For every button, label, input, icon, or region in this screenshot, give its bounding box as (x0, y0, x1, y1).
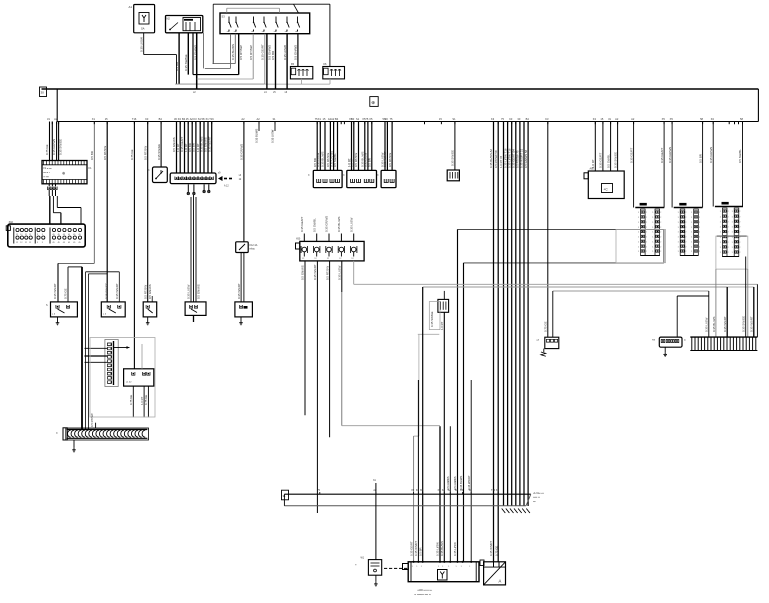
wire from top frame to K6 (329, 4, 331, 66)
svg-text:1: 1 (678, 241, 679, 243)
svg-text:T16: T16 (132, 117, 137, 121)
svg-text:K3: K3 (593, 117, 597, 121)
svg-text:1: 1 (678, 227, 679, 229)
svg-text:1: 1 (732, 221, 733, 223)
svg-text:1: 1 (652, 217, 653, 219)
svg-text:0.5 RT/SW: 0.5 RT/SW (388, 153, 392, 167)
wire collector loops right of center (458, 228, 664, 230)
svg-text:1: 1 (732, 247, 733, 249)
svg-text:0.5 SW/BL: 0.5 SW/BL (738, 149, 742, 163)
svg-text:0.5 GN/WS 58: 0.5 GN/WS 58 (524, 150, 528, 168)
svg-text:1: 1 (652, 251, 653, 253)
svg-text:2: 2 (728, 232, 729, 234)
svg-text:0.35 GE/RT: 0.35 GE/RT (629, 148, 633, 163)
svg-text:1: 1 (720, 221, 721, 223)
svg-text:0.5 GN/WS: 0.5 GN/WS (301, 265, 305, 280)
svg-text:B4: B4 (526, 117, 530, 121)
svg-text:2: 2 (699, 222, 700, 224)
svg-text:2: 2 (739, 221, 740, 223)
svg-text:2: 2 (739, 227, 740, 229)
svg-text:2: 2 (728, 216, 729, 218)
wire long center drops (457, 229, 459, 561)
svg-text:0.75 GE: 0.75 GE (544, 321, 548, 332)
svg-text:T16: T16 (209, 117, 214, 121)
svg-text:0.5 GN/WS: 0.5 GN/WS (294, 45, 298, 60)
svg-text:2: 2 (739, 242, 740, 244)
svg-text:1: 1 (720, 232, 721, 234)
svg-text:1: 1 (461, 566, 462, 568)
wire: main power bus rail 30 (42, 88, 759, 90)
svg-text:1: 1 (469, 566, 470, 568)
svg-text:0.35 GE/RT: 0.35 GE/RT (660, 148, 664, 163)
svg-text:2: 2 (728, 237, 729, 239)
svg-text:1: 1 (732, 242, 733, 244)
svg-text:1: 1 (638, 222, 639, 224)
svg-text:1: 1 (732, 211, 733, 213)
svg-text:2: 2 (699, 246, 700, 248)
svg-text:1: 1 (652, 227, 653, 229)
svg-text:2: 2 (646, 237, 647, 239)
svg-text:0.35 GE/RT: 0.35 GE/RT (409, 541, 413, 556)
svg-text:12: 12 (25, 242, 27, 244)
svg-text:0.35 LI/SW: 0.35 LI/SW (349, 217, 353, 232)
svg-text:B4: B4 (335, 117, 339, 121)
wires below S3 (234, 34, 236, 64)
svg-text:1: 1 (678, 246, 679, 248)
wire bus drop x147 to S22 (147, 122, 149, 302)
wires below X60 (304, 261, 306, 415)
svg-text:0.5 BR: 0.5 BR (418, 547, 422, 556)
svg-text:1: 1 (691, 251, 692, 253)
svg-text:0.75 GE: 0.75 GE (130, 149, 134, 160)
svg-text:2: 2 (685, 251, 686, 253)
svg-text:▪▪▪ ▪▪ ▪: ▪▪▪ ▪▪ ▪ (44, 172, 50, 174)
svg-text:0.35 GR/WS: 0.35 GR/WS (240, 144, 244, 160)
svg-text:1: 1 (678, 212, 679, 214)
wire from A1 (143, 33, 145, 55)
svg-text:2: 2 (660, 232, 661, 234)
component S3 fuse/switch box top (220, 13, 310, 34)
component X70 connector small (545, 337, 559, 348)
svg-text:0.5 RT/SW: 0.5 RT/SW (103, 146, 107, 160)
svg-text:▪A 31▪▪ ▪▪▪: ▪A 31▪▪ ▪▪▪ (533, 492, 544, 495)
svg-text:A2: A2 (631, 117, 635, 121)
svg-text:2: 2 (699, 241, 700, 243)
svg-text:2: 2 (728, 247, 729, 249)
svg-text:A2: A2 (615, 117, 619, 121)
svg-text:0.35 BL/WS: 0.35 BL/WS (712, 317, 716, 332)
svg-text:1: 1 (678, 217, 679, 219)
svg-text:0.35 WS/RT: 0.35 WS/RT (207, 136, 211, 152)
wire long cluster bus to bottom (9 wires) (493, 122, 495, 562)
svg-text:0.5 SW/BL: 0.5 SW/BL (606, 154, 610, 168)
component K6 relay top-right 2 (323, 67, 345, 79)
svg-text:A2: A2 (241, 117, 245, 121)
svg-text:0.35 BL/WS: 0.35 BL/WS (459, 475, 463, 490)
component X65 small box center (447, 170, 459, 181)
svg-text:45: 45 (63, 242, 65, 244)
svg-text:0.35 GR/WS: 0.35 GR/WS (709, 147, 713, 163)
harness outlines gray right (616, 230, 666, 263)
svg-text:45: 45 (73, 242, 75, 244)
svg-text:0.35 LI/SW: 0.35 LI/SW (316, 152, 320, 167)
svg-text:1: 1 (720, 227, 721, 229)
component X85 small connector right (659, 337, 682, 347)
svg-text:0.5 SW/BL: 0.5 SW/BL (333, 153, 337, 167)
wire bus drop x134 to A30 (133, 122, 135, 369)
wires bus to F1 (49, 122, 51, 161)
svg-text:0.5 RT/SW: 0.5 RT/SW (249, 45, 253, 60)
svg-text:0.35 SW/GE: 0.35 SW/GE (451, 150, 455, 166)
component A80 module HC (588, 171, 624, 199)
svg-text:1: 1 (638, 212, 639, 214)
svg-text:1: 1 (691, 212, 692, 214)
svg-text:2: 2 (728, 242, 729, 244)
svg-text:2: 2 (646, 232, 647, 234)
svg-text:0.35 BL/WS: 0.35 BL/WS (337, 217, 341, 232)
routing gray center paths (342, 425, 440, 427)
svg-text:0.35 LI/SW: 0.35 LI/SW (453, 542, 457, 556)
svg-text:1: 1 (638, 232, 639, 234)
svg-text:2: 2 (728, 252, 729, 254)
svg-text:K3: K3 (491, 117, 495, 121)
svg-text:0.35 SW/GE: 0.35 SW/GE (59, 139, 63, 155)
svg-text:1: 1 (691, 227, 692, 229)
wires below X35 with ring terminals (187, 184, 189, 192)
component A90 bottom control module (408, 562, 479, 582)
svg-text:2: 2 (646, 212, 647, 214)
svg-text:A 12: A 12 (224, 185, 229, 188)
wire bottom rail 1 (284, 493, 530, 495)
svg-text:2: 2 (699, 212, 700, 214)
svg-text:0.5 GN/WS: 0.5 GN/WS (148, 284, 152, 299)
svg-text:0.35 SW/GE: 0.35 SW/GE (430, 311, 434, 327)
component X86 comb connector right (690, 336, 757, 338)
svg-text:▪▪: ▪▪ (355, 565, 357, 567)
svg-text:2: 2 (685, 217, 686, 219)
svg-text:1: 1 (638, 241, 639, 243)
svg-text:2: 2 (728, 211, 729, 213)
svg-text:A1: A1 (129, 5, 133, 9)
svg-text:0.75 GE: 0.75 GE (45, 144, 49, 155)
wire: thin frame above S3 (213, 3, 330, 5)
wire collector joining to bus (193, 74, 239, 76)
svg-text:2: 2 (739, 247, 740, 249)
svg-text:1: 1 (732, 252, 733, 254)
svg-text:0.5 GN/WS: 0.5 GN/WS (453, 476, 457, 490)
svg-text:2: 2 (660, 227, 661, 229)
wire bus to X70 (547, 122, 549, 338)
svg-text:2: 2 (646, 246, 647, 248)
svg-text:0.35 WS/RT: 0.35 WS/RT (313, 264, 317, 280)
svg-text:2: 2 (739, 237, 740, 239)
svg-text:0.35 SW/GE: 0.35 SW/GE (184, 54, 188, 71)
node splice X_2 on bus (370, 97, 378, 107)
svg-text:1.0 RT: 1.0 RT (350, 158, 354, 167)
svg-text:1: 1 (732, 216, 733, 218)
svg-text:0.35 BL/WS A2: 0.35 BL/WS A2 (489, 149, 493, 168)
svg-text:0.35 LI/SW: 0.35 LI/SW (271, 129, 275, 143)
svg-text:12: 12 (16, 242, 18, 244)
svg-text:1: 1 (720, 216, 721, 218)
wire bus drop to S21 (106, 122, 108, 302)
svg-text:0.35 WS/RT: 0.35 WS/RT (467, 475, 471, 490)
component K5 relay top-right 1 (290, 67, 312, 79)
component X66 small box (438, 299, 449, 312)
component S24 switch (235, 302, 253, 317)
wires from N2 to bus junction (178, 33, 180, 84)
svg-text:0.5 RT/SW: 0.5 RT/SW (143, 146, 147, 160)
svg-text:S1: S1 (356, 117, 360, 121)
svg-text:relay: relay (250, 248, 256, 251)
svg-text:2: 2 (685, 212, 686, 214)
svg-text:1: 1 (678, 222, 679, 224)
svg-text:1: 1 (691, 222, 692, 224)
svg-text:0.35 BL/WS: 0.35 BL/WS (231, 44, 235, 60)
svg-text:+C: +C (604, 187, 609, 191)
svg-text:X5: X5 (670, 117, 674, 121)
svg-text:2: 2 (646, 222, 647, 224)
svg-text:0.35 BL/WS: 0.35 BL/WS (440, 541, 444, 556)
svg-text:0.5 GN/WS: 0.5 GN/WS (197, 284, 201, 299)
component A1 top-left control unit (134, 5, 155, 33)
svg-text:2: 2 (646, 217, 647, 219)
component A30 module (124, 369, 154, 386)
svg-text:45: 45 (68, 242, 70, 244)
svg-text:1: 1 (720, 252, 721, 254)
svg-text:▪▪▪: ▪▪▪ (533, 500, 536, 503)
svg-text:1: 1 (442, 566, 443, 568)
svg-text:12: 12 (20, 242, 22, 244)
component X81 pin strip (635, 207, 664, 209)
svg-text:0.35 GR/WS: 0.35 GR/WS (325, 216, 329, 232)
svg-text:0.5 SW/BL: 0.5 SW/BL (312, 218, 316, 232)
component X83 pin strip (715, 206, 743, 208)
component W1 bottom-left small part (368, 560, 381, 576)
harness outline left gray (90, 338, 155, 418)
component K10 relay (153, 167, 168, 183)
svg-text:0.35 LI/SW: 0.35 LI/SW (187, 284, 191, 299)
wires strips to comb (715, 269, 717, 337)
svg-text:0.35 LI/SW: 0.35 LI/SW (705, 317, 709, 332)
svg-text:2: 2 (728, 227, 729, 229)
component X82 pin strip (674, 207, 703, 209)
svg-text:2: 2 (660, 251, 661, 253)
svg-text:0.35 GE/RT: 0.35 GE/RT (300, 217, 304, 232)
svg-text:0.35 WS/RT: 0.35 WS/RT (53, 283, 57, 299)
component X45 comb connector strip (66, 428, 149, 440)
svg-text:0.5 RT/SW: 0.5 RT/SW (325, 266, 329, 280)
svg-text:0.5 BR: 0.5 BR (368, 158, 372, 167)
svg-text:1.0 RT: 1.0 RT (440, 321, 444, 330)
svg-text:K3: K3 (145, 117, 149, 121)
connector arrow to harness (218, 176, 223, 181)
svg-text:0.35 WS/RT: 0.35 WS/RT (750, 316, 754, 332)
component S23 switch (185, 302, 206, 316)
component F1 fuse box left (42, 161, 87, 184)
wires below F1 with inline connectors (48, 184, 50, 187)
svg-text:45: 45 (78, 242, 80, 244)
routing gray rails center-right (353, 261, 355, 284)
svg-text:1: 1 (720, 211, 721, 213)
svg-text:1: 1 (638, 217, 639, 219)
svg-text:1: 1 (720, 247, 721, 249)
svg-text:2: 2 (660, 241, 661, 243)
component N2 relay box top (166, 16, 203, 33)
svg-text:N2: N2 (167, 17, 171, 21)
svg-text:0.75 GE: 0.75 GE (495, 546, 499, 556)
svg-text:0.35 BL/WS: 0.35 BL/WS (321, 152, 325, 167)
component S22 switch (143, 302, 157, 317)
node label terminal 30 left (40, 87, 47, 97)
svg-text:2: 2 (685, 246, 686, 248)
svg-text:a1 b2: a1 b2 (126, 382, 132, 384)
svg-text:0.5 RT/SW 58: 0.5 RT/SW 58 (494, 150, 498, 168)
svg-text:2: 2 (660, 237, 661, 239)
svg-text:1: 1 (678, 232, 679, 234)
svg-text:2: 2 (685, 222, 686, 224)
svg-text:2: 2 (728, 221, 729, 223)
svg-text:0.35 SW/GE: 0.35 SW/GE (741, 316, 745, 332)
svg-text:0.35 WS/RT: 0.35 WS/RT (115, 283, 119, 299)
component S21 switch (101, 302, 125, 317)
svg-text:1: 1 (691, 232, 692, 234)
svg-text:SA: SA (141, 27, 145, 31)
svg-text:1: 1 (691, 246, 692, 248)
svg-text:1: 1 (652, 222, 653, 224)
svg-text:1: 1 (732, 227, 733, 229)
component X52 connector box 3 (381, 170, 396, 187)
svg-text:1: 1 (412, 566, 413, 568)
svg-text:1: 1 (720, 237, 721, 239)
svg-text:X10: X10 (9, 221, 14, 224)
component X10 main connector block left (8, 224, 85, 247)
svg-text:0.5 BR: 0.5 BR (698, 154, 702, 163)
svg-text:1: 1 (438, 566, 439, 568)
svg-text:1: 1 (652, 237, 653, 239)
svg-text:X5: X5 (662, 117, 666, 121)
svg-text:1: 1 (691, 241, 692, 243)
svg-text:2: 2 (646, 241, 647, 243)
svg-text:2: 2 (739, 216, 740, 218)
svg-text:0.35 SW/GE: 0.35 SW/GE (157, 144, 161, 160)
svg-text:1: 1 (652, 232, 653, 234)
svg-text:2: 2 (739, 232, 740, 234)
svg-text:45: 45 (52, 242, 54, 244)
svg-text:1: 1 (720, 242, 721, 244)
svg-text:▪▪▪▪▪ ▪▪: ▪▪▪▪▪ ▪▪ (533, 496, 540, 499)
svg-text:0.35 WS/RT: 0.35 WS/RT (383, 151, 387, 167)
component X60 5-pin connector row (300, 241, 364, 261)
svg-text:S1: S1 (452, 117, 456, 121)
svg-text:K3: K3 (178, 117, 182, 121)
svg-text:1: 1 (652, 246, 653, 248)
svg-text:0.35 GE/RT: 0.35 GE/RT (599, 153, 603, 168)
component X40 pin ladder (105, 340, 118, 387)
svg-text:1: 1 (678, 251, 679, 253)
svg-text:S3: S3 (222, 15, 226, 19)
svg-text:0.5 RT/SW: 0.5 RT/SW (143, 285, 147, 299)
component S20 switch (51, 302, 78, 317)
svg-text:0.35 LI/SW: 0.35 LI/SW (338, 265, 342, 280)
svg-text:1: 1 (416, 566, 417, 568)
wire bus to K10 (160, 122, 162, 168)
svg-text:1: 1 (652, 212, 653, 214)
svg-text:2: 2 (739, 252, 740, 254)
svg-text:0.35 WS/RT: 0.35 WS/RT (489, 541, 493, 556)
svg-text:0.75 GE: 0.75 GE (64, 288, 68, 299)
component X35 connector 10-way (170, 173, 216, 184)
svg-text:0.35 BL/WS: 0.35 BL/WS (255, 128, 259, 143)
svg-text:K3: K3 (193, 117, 197, 121)
svg-text:2: 2 (699, 217, 700, 219)
svg-text:2: 2 (685, 237, 686, 239)
svg-text:2: 2 (699, 251, 700, 253)
svg-text:0.5 GN/WS: 0.5 GN/WS (446, 476, 450, 490)
svg-text:0.35 GR/WS: 0.35 GR/WS (52, 139, 56, 155)
component X51 connector box 2 (347, 170, 377, 187)
wire bottom rail 2 (284, 505, 526, 507)
svg-text:1: 1 (421, 566, 422, 568)
svg-text:K3: K3 (711, 117, 715, 121)
svg-text:1: 1 (732, 237, 733, 239)
wire drops to bottom module (413, 436, 415, 562)
svg-text:12: 12 (29, 242, 31, 244)
svg-text:K3: K3 (509, 117, 513, 121)
svg-text:3: 3 (42, 242, 43, 244)
svg-text:0.75 GE: 0.75 GE (129, 395, 133, 405)
svg-text:A: A (499, 579, 502, 584)
svg-text:1: 1 (456, 566, 457, 568)
svg-text:0.35 LI/SW: 0.35 LI/SW (283, 45, 287, 60)
svg-text:0.35 WS/RT: 0.35 WS/RT (237, 283, 241, 299)
svg-text:2: 2 (685, 232, 686, 234)
svg-text:1: 1 (691, 217, 692, 219)
component W2 antenna amplifier (484, 562, 506, 585)
svg-text:X60: X60 (296, 238, 301, 241)
svg-text:0.5 BR: 0.5 BR (90, 151, 94, 160)
svg-text:3: 3 (37, 242, 38, 244)
svg-text:1: 1 (638, 246, 639, 248)
svg-text:B4: B4 (159, 117, 163, 121)
svg-text:1: 1 (678, 237, 679, 239)
svg-text:X1: X1 (92, 117, 96, 121)
svg-text:2: 2 (660, 222, 661, 224)
svg-text:2: 2 (660, 217, 661, 219)
svg-text:⊕: ⊕ (371, 100, 375, 105)
svg-text:2: 2 (699, 232, 700, 234)
svg-text:0.5 RT/SW: 0.5 RT/SW (90, 413, 94, 427)
component K12 relay chain (243, 122, 245, 242)
component X50 connector box 1 (313, 170, 342, 187)
svg-text:1: 1 (638, 251, 639, 253)
svg-text:1: 1 (732, 232, 733, 234)
wires below X10 area / gray jog from bus (93, 122, 95, 264)
svg-text:2: 2 (646, 227, 647, 229)
svg-text:X5: X5 (369, 117, 373, 121)
svg-text:0.35 SW/GE: 0.35 SW/GE (613, 152, 617, 168)
svg-text:1: 1 (448, 566, 449, 568)
svg-text:2: 2 (660, 246, 661, 248)
svg-text:1: 1 (638, 237, 639, 239)
svg-text:1: 1 (691, 237, 692, 239)
svg-text:0.35 GR/WS: 0.35 GR/WS (668, 147, 672, 163)
svg-text:2: 2 (685, 241, 686, 243)
svg-text:▪▪ ▪▪▪▪: ▪▪ ▪▪▪▪ (44, 177, 50, 179)
svg-text:F1 ▪▪ ▪▪▪: F1 ▪▪ ▪▪▪ (44, 168, 52, 170)
svg-text:2: 2 (685, 227, 686, 229)
svg-text:A2: A2 (257, 117, 261, 121)
